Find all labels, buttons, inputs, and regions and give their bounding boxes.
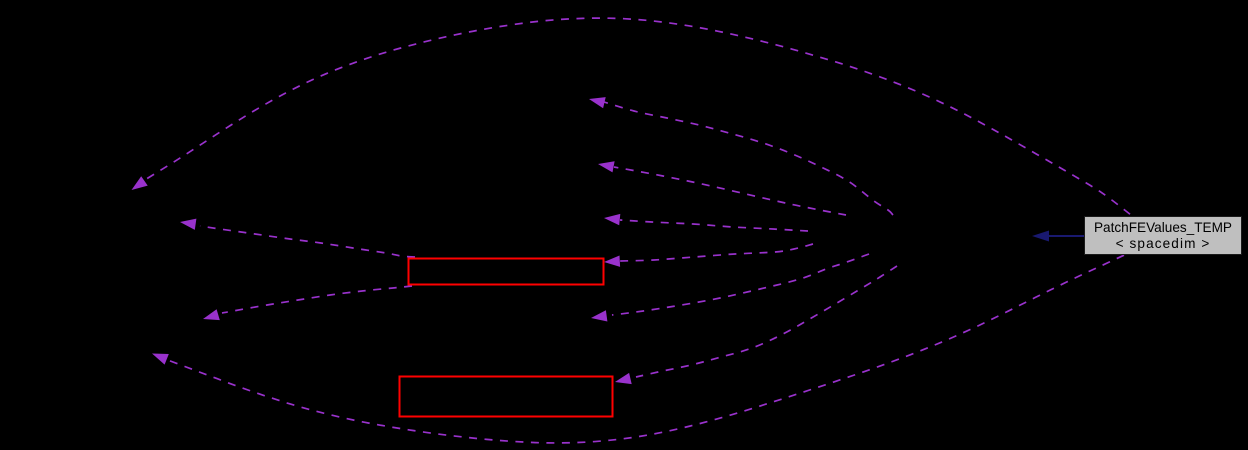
arrowhead A3: [203, 309, 220, 320]
edge D2: fan edge to middle node M1: [604, 102, 893, 215]
edge D7: fan edge into red box 2: [636, 266, 897, 377]
edge D6: fan edge to middle node M5: [612, 254, 869, 315]
arrowhead A4: [152, 354, 169, 365]
red box 2: [400, 377, 613, 417]
edge D9: red box 1 to far-left node A2: [200, 226, 415, 257]
edge D8: bottom arc from PatchFEValues_TEMP to far-left node: [167, 255, 1124, 443]
edge D1: top arc from PatchFEValues_TEMP to far-left node: [146, 18, 1130, 214]
arrowhead M4: [604, 256, 620, 267]
arrowhead M3: [604, 214, 620, 225]
arrowhead M5: [591, 310, 607, 321]
node PatchFEValues_TEMP: [1085, 217, 1242, 255]
arrowhead A2: [180, 219, 196, 230]
arrowhead A1: [132, 176, 148, 190]
inheritance arrow (midnightblue): [1049, 235, 1085, 237]
arrowhead M2: [598, 161, 615, 172]
edge D10: red box 1 to far-left node A3: [222, 286, 412, 313]
edge D3: fan edge to middle node M2: [614, 167, 846, 215]
svg-text:PatchFEValues_TEMP: PatchFEValues_TEMP: [1094, 220, 1232, 235]
svg-text:< spacedim >: < spacedim >: [1116, 236, 1211, 251]
edge D5: fan edge into red box 1: [620, 244, 813, 261]
inheritance arrowhead: [1032, 231, 1049, 242]
arrowhead M1: [589, 97, 606, 108]
arrowhead M6: [615, 373, 632, 384]
edge D4: fan edge to middle node M3: [620, 220, 808, 231]
red box 1: [409, 259, 604, 285]
